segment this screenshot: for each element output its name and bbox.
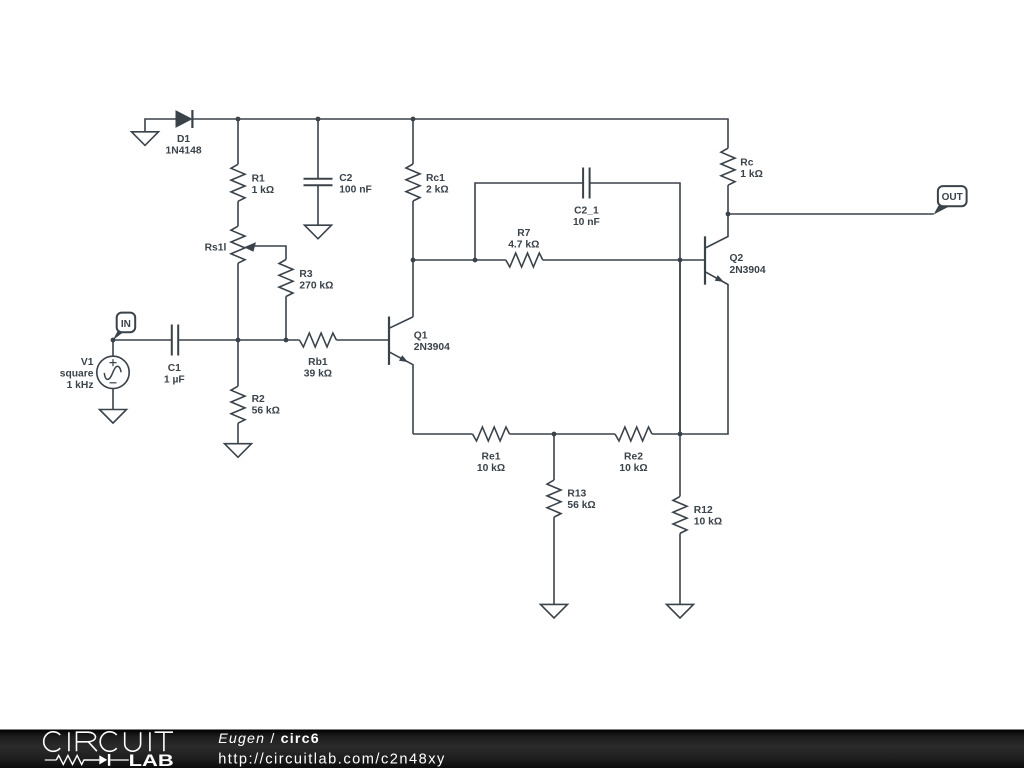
svg-text:C2_1: C2_1 [574, 205, 599, 216]
svg-text:10 kΩ: 10 kΩ [477, 463, 505, 474]
svg-text:V1: V1 [81, 357, 94, 368]
svg-text:Rs1l: Rs1l [205, 242, 227, 253]
svg-text:1 kHz: 1 kHz [67, 380, 94, 391]
svg-text:square: square [60, 369, 94, 380]
svg-text:R2: R2 [252, 394, 265, 405]
svg-text:1N4148: 1N4148 [166, 146, 202, 157]
svg-text:4.7 kΩ: 4.7 kΩ [508, 240, 539, 251]
svg-text:R13: R13 [567, 489, 586, 500]
svg-text:Eugen / circ6: Eugen / circ6 [218, 731, 320, 747]
svg-text:Q2: Q2 [730, 253, 744, 264]
svg-text:10 kΩ: 10 kΩ [619, 463, 647, 474]
svg-text:Q1: Q1 [414, 330, 428, 341]
svg-text:10 kΩ: 10 kΩ [694, 516, 722, 527]
svg-text:C2: C2 [339, 173, 352, 184]
svg-text:1 µF: 1 µF [164, 374, 185, 385]
svg-text:R12: R12 [694, 505, 713, 516]
svg-text:2N3904: 2N3904 [414, 342, 450, 353]
svg-text:C1: C1 [168, 363, 181, 374]
svg-text:2 kΩ: 2 kΩ [426, 185, 449, 196]
svg-text:D1: D1 [177, 134, 190, 145]
svg-text:Re1: Re1 [482, 452, 501, 463]
svg-text:OUT: OUT [942, 192, 963, 203]
svg-text:R1: R1 [252, 174, 265, 185]
svg-text:10 nF: 10 nF [573, 217, 600, 228]
svg-text:LAB: LAB [129, 751, 174, 768]
svg-text:56 kΩ: 56 kΩ [567, 500, 595, 511]
svg-text:Rb1: Rb1 [308, 357, 328, 368]
svg-text:1 kΩ: 1 kΩ [252, 185, 275, 196]
svg-text:Re2: Re2 [624, 452, 643, 463]
svg-text:56 kΩ: 56 kΩ [252, 406, 280, 417]
svg-text:1 kΩ: 1 kΩ [740, 169, 763, 180]
svg-text:Rc1: Rc1 [426, 173, 445, 184]
svg-text:270 kΩ: 270 kΩ [299, 281, 333, 292]
svg-text:R3: R3 [299, 269, 312, 280]
svg-text:R7: R7 [517, 228, 530, 239]
svg-text:39 kΩ: 39 kΩ [304, 369, 332, 380]
svg-text:IN: IN [121, 319, 131, 330]
svg-text:2N3904: 2N3904 [730, 265, 766, 276]
svg-text:Rc: Rc [740, 157, 753, 168]
svg-text:100 nF: 100 nF [339, 185, 372, 196]
svg-text:http://circuitlab.com/c2n48xy: http://circuitlab.com/c2n48xy [218, 751, 446, 767]
